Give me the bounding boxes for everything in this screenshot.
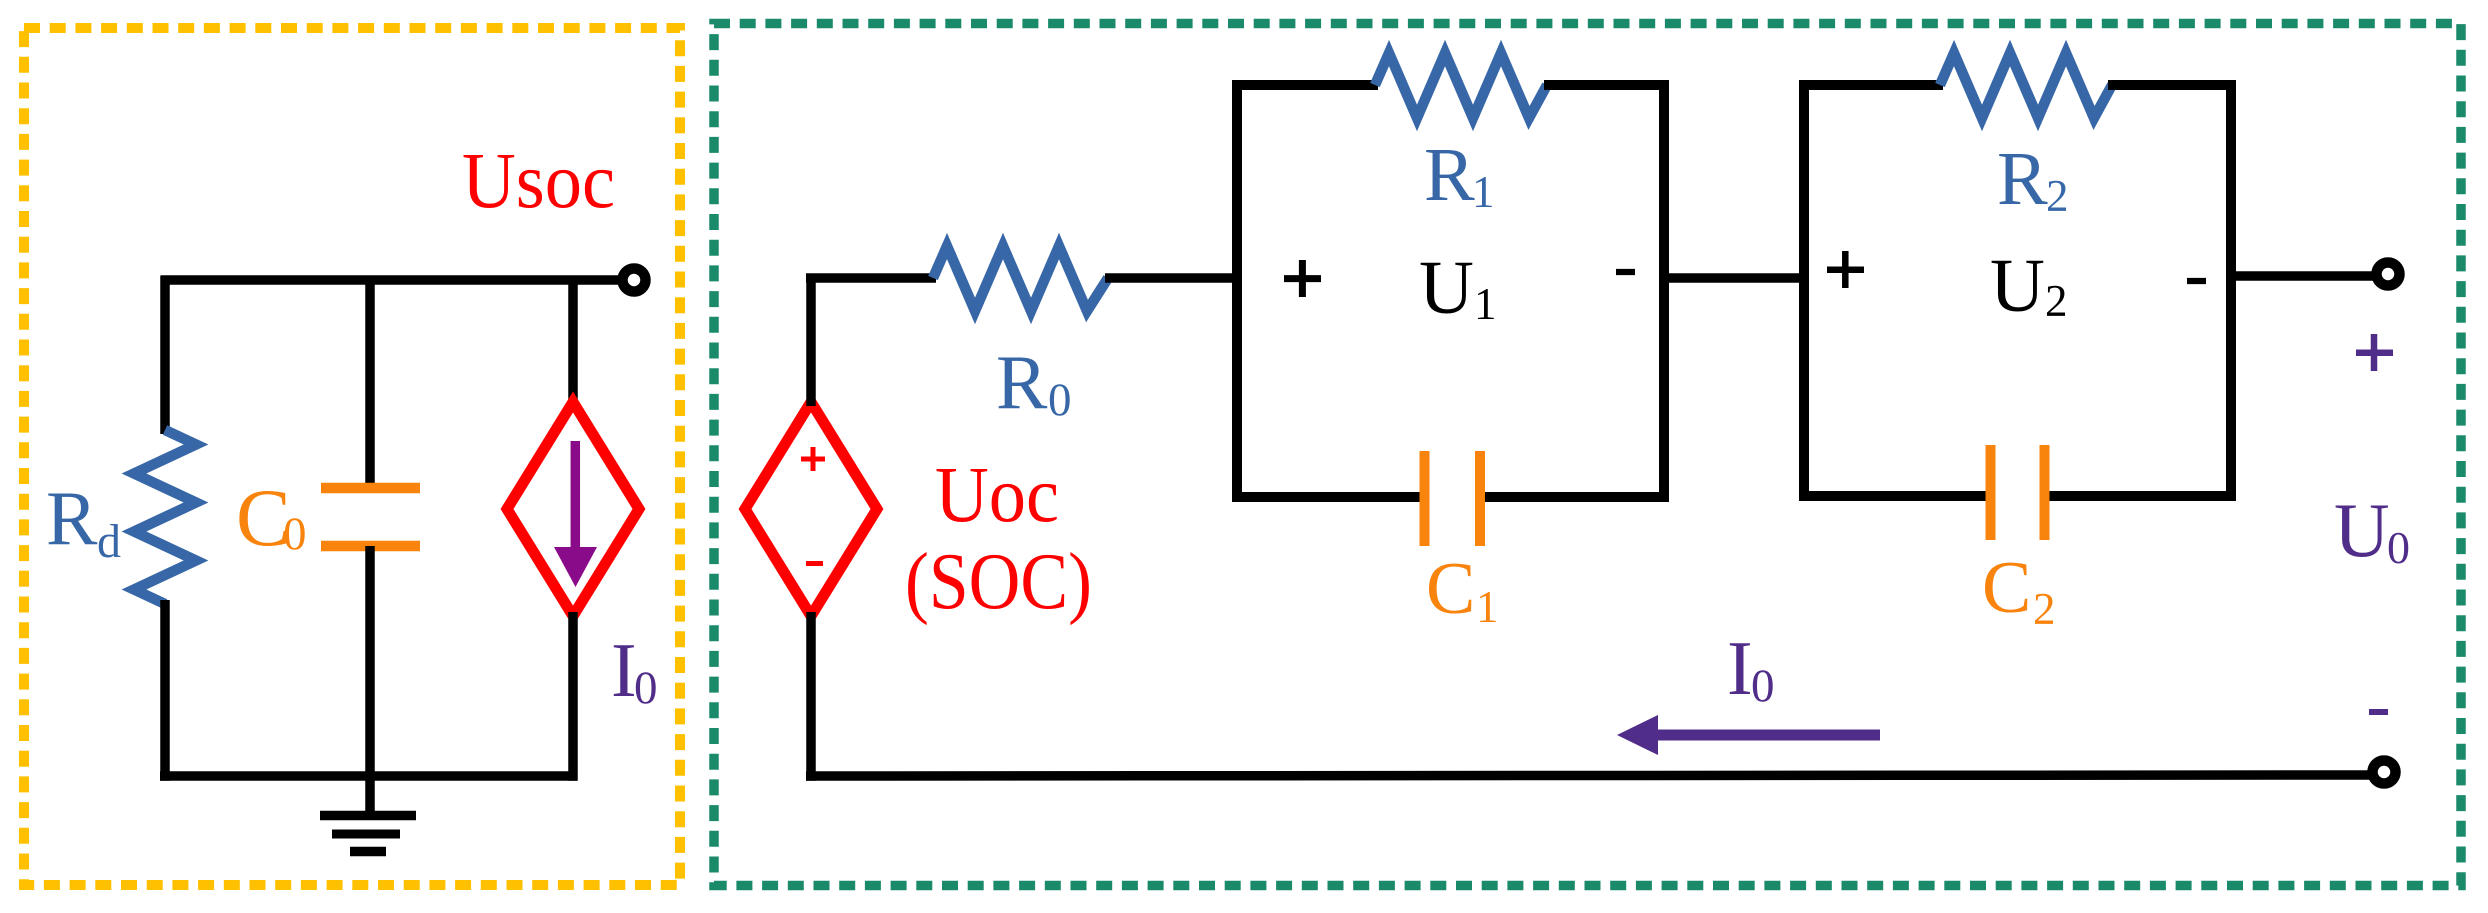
svg-text:0: 0 [283, 508, 307, 560]
plus sign U0 [2356, 349, 2393, 356]
wire: middle branch upper [365, 280, 375, 488]
plus sign U1 [1284, 275, 1321, 282]
wire: left branch upper [160, 276, 170, 435]
RC network 2 frame [1799, 85, 1809, 496]
minus sign U0 [2369, 709, 2388, 715]
svg-text:0: 0 [2387, 522, 2410, 573]
capacitor C0 [321, 483, 420, 494]
wire: middle branch lower [365, 546, 375, 818]
svg-text:0: 0 [1048, 374, 1072, 426]
resistor R2 [1940, 53, 2112, 118]
resistor R0 [933, 246, 1108, 311]
wire: RC2 to output terminal [2231, 271, 2388, 281]
svg-text:R: R [996, 339, 1048, 425]
svg-text:C: C [1426, 548, 1475, 630]
svg-text:R: R [46, 475, 98, 561]
svg-text:U: U [1990, 244, 2045, 328]
svg-text:R: R [1424, 133, 1475, 217]
ground [320, 811, 416, 821]
svg-text:0: 0 [634, 662, 658, 714]
svg-text:2: 2 [2033, 584, 2056, 634]
node Usoc terminal [623, 269, 646, 292]
wire: left box bottom rail [160, 771, 577, 781]
minus sign in source [806, 561, 823, 566]
wire: left box top rail [161, 275, 634, 285]
capacitor C1 [1420, 451, 1430, 546]
svg-text:1: 1 [1472, 167, 1495, 217]
plus sign U2 [1827, 267, 1864, 274]
current source I0 diamond [507, 402, 639, 616]
wire: bottom rail [806, 775, 2374, 776]
svg-text:1: 1 [1476, 582, 1499, 632]
svg-text:Uoc: Uoc [935, 452, 1059, 539]
voltage source Uoc diamond [745, 402, 877, 616]
RC network 1 frame [1232, 85, 1242, 497]
svg-text:I: I [1727, 625, 1753, 711]
svg-text:I: I [611, 627, 637, 713]
current arrow I0 [1658, 730, 1880, 741]
current arrow [571, 441, 581, 549]
wire: source to top rail [806, 278, 816, 406]
wire: current source branch lower [568, 612, 578, 781]
svg-text:C: C [1982, 547, 2031, 629]
svg-text:2: 2 [2046, 171, 2069, 221]
svg-text:R: R [1997, 137, 2048, 221]
capacitor C2 [1986, 445, 1996, 540]
wire: RC1 to RC2 [1664, 273, 1804, 283]
svg-text:1: 1 [1474, 279, 1497, 329]
resistor R1 [1375, 53, 1547, 118]
svg-text:(SOC): (SOC) [905, 538, 1092, 626]
svg-text:0: 0 [1751, 660, 1775, 712]
minus sign U1 [1616, 269, 1635, 275]
svg-text:U: U [1419, 246, 1474, 330]
minus sign U2 [2187, 278, 2206, 284]
svg-text:Usoc: Usoc [462, 138, 615, 225]
wire: source to bottom rail [806, 612, 816, 781]
dashed frame: SOC sub-circuit box [24, 28, 680, 885]
wire: current source branch upper [568, 276, 578, 407]
svg-text:d: d [97, 515, 121, 568]
resistor Rd [134, 430, 196, 604]
dashed frame: battery model box [714, 24, 2461, 886]
node output + terminal [2377, 263, 2400, 286]
svg-text:U: U [2334, 487, 2390, 573]
svg-text:2: 2 [2045, 276, 2068, 326]
wire: R0 to RC1 [1105, 273, 1241, 283]
plus sign in source [801, 457, 825, 462]
wire: top rail to R0 [806, 273, 936, 283]
wire: left branch lower [160, 600, 170, 781]
node output - terminal [2373, 761, 2396, 784]
